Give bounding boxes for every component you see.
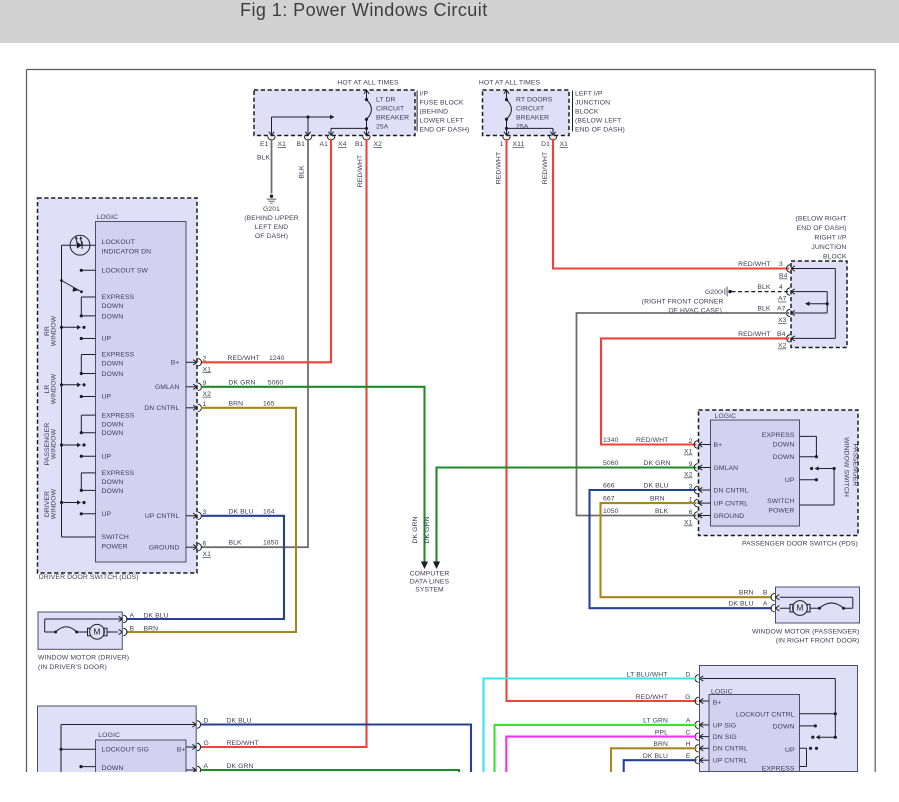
svg-text:1340: 1340 <box>603 437 619 444</box>
svg-text:UP CNTRL: UP CNTRL <box>145 513 180 520</box>
pin 4/A7 <box>757 284 790 303</box>
svg-text:RED/WHT: RED/WHT <box>228 355 260 362</box>
svg-text:GROUND: GROUND <box>714 513 745 520</box>
svg-text:BRN: BRN <box>653 741 668 748</box>
lower-right pin D <box>627 671 704 682</box>
svg-text:END OF DASH): END OF DASH) <box>575 126 625 133</box>
wire BRN lower-right H <box>611 748 697 772</box>
svg-text:(BEHIND: (BEHIND <box>420 108 449 115</box>
svg-text:DOWN: DOWN <box>773 454 795 461</box>
label PASSENGER WINDOW SWITCH <box>842 437 858 497</box>
right I/P junction block box <box>791 215 847 347</box>
svg-text:2: 2 <box>689 438 693 445</box>
svg-text:BLK: BLK <box>757 306 771 313</box>
label LR WINDOW <box>44 373 58 404</box>
svg-text:BREAKER: BREAKER <box>516 115 549 122</box>
svg-text:E1: E1 <box>260 141 269 148</box>
svg-text:EXPRESS: EXPRESS <box>762 766 795 773</box>
svg-text:LOCKOUT: LOCKOUT <box>102 239 136 246</box>
svg-text:X1: X1 <box>560 141 569 148</box>
svg-text:3: 3 <box>779 261 783 268</box>
label LOCKOUT SIG / B+ <box>102 746 186 778</box>
svg-text:BLK: BLK <box>757 284 771 291</box>
svg-text:LOGIC: LOGIC <box>711 688 733 695</box>
svg-text:FUSE BLOCK: FUSE BLOCK <box>420 100 464 107</box>
svg-text:A: A <box>763 601 768 608</box>
svg-text:DN CNTRL: DN CNTRL <box>713 746 748 753</box>
svg-text:LEFT END: LEFT END <box>255 224 289 231</box>
svg-text:UP: UP <box>102 453 112 460</box>
wire PPL lower-right C <box>506 737 696 773</box>
svg-text:X1: X1 <box>203 366 212 373</box>
motor driver pin A <box>123 613 168 623</box>
svg-text:B: B <box>763 590 768 597</box>
wire labels 1050 BLK <box>603 508 669 515</box>
lower-right pin C <box>655 729 709 740</box>
svg-text:DRIVER DOOR SWITCH (DDS): DRIVER DOOR SWITCH (DDS) <box>39 574 139 581</box>
lower-right wiper contact <box>811 735 837 740</box>
svg-text:G: G <box>685 694 690 701</box>
svg-text:DATA LINES: DATA LINES <box>410 579 450 586</box>
svg-text:SWITCH: SWITCH <box>102 534 129 541</box>
svg-text:E: E <box>686 753 691 760</box>
svg-text:COMPUTER: COMPUTER <box>410 571 450 578</box>
motor passenger pin B <box>739 590 775 601</box>
svg-text:RED/WHT: RED/WHT <box>636 437 668 444</box>
svg-text:X1: X1 <box>684 520 693 527</box>
svg-text:GROUND: GROUND <box>149 544 180 551</box>
fuse block internal wire E1-B1 with arrow <box>269 115 335 136</box>
svg-text:(IN DRIVER'S DOOR): (IN DRIVER'S DOOR) <box>38 664 107 671</box>
svg-text:H: H <box>685 741 690 748</box>
lower-left door switch box <box>38 706 197 790</box>
label RR WINDOW <box>44 315 58 346</box>
svg-text:BRN: BRN <box>144 626 159 633</box>
svg-text:LT DR: LT DR <box>376 97 396 104</box>
svg-text:B4: B4 <box>777 331 786 338</box>
svg-text:I/P: I/P <box>420 91 429 98</box>
svg-text:DN CNTRL: DN CNTRL <box>714 487 749 494</box>
svg-text:RED/WHT: RED/WHT <box>738 331 770 338</box>
svg-text:B+: B+ <box>177 746 186 753</box>
lockout switch lever <box>60 279 83 293</box>
svg-text:UP: UP <box>102 394 112 401</box>
wire BRN 165 DDS DN CNTRL to driver motor B <box>126 400 296 632</box>
svg-text:X2: X2 <box>778 343 787 350</box>
lower-left internal bus <box>59 725 95 773</box>
svg-text:LOCKOUT CNTRL: LOCKOUT CNTRL <box>736 712 795 719</box>
svg-text:UP: UP <box>785 747 795 754</box>
motor driver pin B <box>123 626 158 636</box>
lower-right door switch box <box>700 666 858 772</box>
svg-text:RED/WHT: RED/WHT <box>357 155 364 187</box>
svg-text:X1: X1 <box>203 551 212 558</box>
wire BRN 667 PDS UP CNTRL to passenger motor B <box>601 496 772 598</box>
svg-text:G201: G201 <box>263 206 280 213</box>
svg-text:CIRCUIT: CIRCUIT <box>516 106 544 113</box>
wire LT GRN lower-right A <box>495 725 697 773</box>
svg-text:UP SIG: UP SIG <box>713 722 737 729</box>
svg-text:DK BLU: DK BLU <box>644 483 669 490</box>
passenger window switch contacts <box>60 412 135 460</box>
wire BLK junction A7/X3 to PDS GROUND <box>577 313 790 516</box>
svg-text:RED/WHT: RED/WHT <box>542 152 549 184</box>
svg-text:WINDOW: WINDOW <box>51 373 58 404</box>
svg-text:165: 165 <box>263 400 275 407</box>
ground G200 dashed lead <box>642 287 788 315</box>
lower-right logic box <box>709 688 800 771</box>
wire LT BLU/WHT lower-right D <box>484 679 697 773</box>
svg-text:B+: B+ <box>714 442 723 449</box>
wire label BLK 1850 <box>229 540 279 547</box>
svg-text:DOWN: DOWN <box>102 421 124 428</box>
DDS left bus wire <box>62 245 96 537</box>
lower-right pin H <box>653 741 709 752</box>
svg-text:X4: X4 <box>338 141 347 148</box>
lower-right D internal wire to lockout <box>702 679 837 738</box>
junction internal bus 3 to B4 <box>791 266 835 341</box>
lockout indicator LED <box>62 235 152 255</box>
lower-left pin D <box>188 718 252 729</box>
label HOT AT ALL TIMES (right) <box>479 80 541 87</box>
svg-text:DK BLU: DK BLU <box>643 753 668 760</box>
wire RED/WHT junction pin1 down to lower-right switch G <box>496 139 697 701</box>
DDS pin 3 UP CNTRL <box>145 509 207 520</box>
LR window switch contacts <box>60 352 135 401</box>
DDS logic box <box>96 214 187 562</box>
svg-text:RED/WHT: RED/WHT <box>227 740 259 747</box>
svg-text:1050: 1050 <box>603 508 619 515</box>
svg-text:LOGIC: LOGIC <box>97 214 119 221</box>
label DRIVER WINDOW <box>44 488 58 519</box>
driver window switch contacts <box>60 470 135 518</box>
svg-text:DK GRN: DK GRN <box>424 516 431 543</box>
lower-left pin G <box>186 740 259 751</box>
svg-text:HOT AT ALL TIMES: HOT AT ALL TIMES <box>337 80 399 87</box>
lockout switch contact <box>80 268 149 275</box>
circuit breaker RT DOORS 25A <box>504 90 553 136</box>
svg-text:DOWN: DOWN <box>102 479 124 486</box>
window motor passenger box <box>752 587 860 645</box>
wire BLK 1850 fuse B1 to DDS GROUND <box>201 139 308 547</box>
wire DK BLU lower-left D down <box>201 725 471 773</box>
lower-left logic box <box>96 732 187 790</box>
wire RED/WHT 1240 fuse A1 to DDS B+ <box>201 139 331 362</box>
wire RED/WHT 1340 junction B4/X2 to PDS B+ <box>601 338 789 444</box>
svg-text:DOWN: DOWN <box>102 361 124 368</box>
svg-text:RIGHT I/P: RIGHT I/P <box>814 234 846 241</box>
svg-text:GMLAN: GMLAN <box>155 384 180 391</box>
svg-text:X11: X11 <box>513 141 525 148</box>
svg-text:BLOCK: BLOCK <box>575 108 599 115</box>
svg-text:HOT AT ALL TIMES: HOT AT ALL TIMES <box>479 80 541 87</box>
svg-text:BREAKER: BREAKER <box>376 115 409 122</box>
svg-text:B4: B4 <box>779 273 788 280</box>
lower-right internal labels <box>713 699 795 772</box>
ground G201 <box>244 195 299 241</box>
svg-text:DOWN: DOWN <box>102 488 124 495</box>
svg-text:DOWN: DOWN <box>773 441 795 448</box>
PDS window switch contacts <box>762 432 836 514</box>
svg-text:(BELOW RIGHT: (BELOW RIGHT <box>795 215 846 222</box>
svg-text:DOWN: DOWN <box>102 765 124 772</box>
svg-text:LOWER LEFT: LOWER LEFT <box>420 117 464 124</box>
svg-text:X2: X2 <box>203 391 212 398</box>
DDS pin 1 DN CNTRL <box>144 401 206 412</box>
svg-text:X2: X2 <box>374 141 383 148</box>
svg-text:DK GRN: DK GRN <box>412 516 419 543</box>
lower-left DOWN contact <box>79 765 123 772</box>
svg-text:PASSENGER DOOR SWITCH (PDS): PASSENGER DOOR SWITCH (PDS) <box>742 540 858 547</box>
svg-text:9: 9 <box>689 461 693 468</box>
svg-text:6: 6 <box>203 541 207 548</box>
svg-text:25A: 25A <box>376 124 389 131</box>
svg-text:LT GRN: LT GRN <box>643 718 668 725</box>
label SWITCH POWER <box>102 534 129 551</box>
svg-text:BLK: BLK <box>299 165 306 179</box>
left I/P junction block box <box>483 90 625 136</box>
svg-text:DK GRN: DK GRN <box>644 460 671 467</box>
svg-text:UP: UP <box>102 511 112 518</box>
fuse block internal wire A1 branch <box>328 127 368 136</box>
PDS pin 2/X1 B+ <box>684 438 722 456</box>
PDS pin 9/X2 GMLAN <box>684 461 738 479</box>
motor passenger pin A <box>728 601 774 612</box>
svg-text:WINDOW MOTOR (PASSENGER): WINDOW MOTOR (PASSENGER) <box>752 629 860 636</box>
svg-text:DOWN: DOWN <box>102 430 124 437</box>
label COMPUTER DATA LINES SYSTEM <box>410 571 450 594</box>
wire RED/WHT fuse B1/X2 down to lower-left switch G <box>201 139 367 747</box>
svg-text:1850: 1850 <box>263 540 279 547</box>
RR window switch contacts <box>60 294 135 343</box>
svg-text:LOCKOUT SIG: LOCKOUT SIG <box>102 746 149 753</box>
svg-text:EXPRESS: EXPRESS <box>102 294 135 301</box>
pin B1 <box>296 136 311 148</box>
wire BLK E1 to G201 <box>257 139 272 194</box>
svg-text:M: M <box>93 627 100 637</box>
pin E1/X1 <box>260 136 286 148</box>
svg-text:G: G <box>204 740 209 747</box>
title bar <box>0 0 899 43</box>
svg-text:BLK: BLK <box>655 508 669 515</box>
motor M passenger <box>776 595 853 616</box>
pin 1/X11 <box>500 136 525 148</box>
junction internal 4 to A7 with arrow <box>791 289 829 316</box>
PDS logic box <box>711 413 800 526</box>
svg-text:4: 4 <box>779 284 783 291</box>
svg-text:RT DOORS: RT DOORS <box>516 97 553 104</box>
svg-text:M: M <box>796 603 803 613</box>
DDS pin 9/X2 GMLAN <box>155 380 211 398</box>
window motor driver box <box>38 612 129 671</box>
lower-right pin A <box>643 718 709 729</box>
svg-text:EXPRESS: EXPRESS <box>102 412 135 419</box>
svg-text:WINDOW SWITCH: WINDOW SWITCH <box>842 437 849 497</box>
svg-text:A: A <box>686 718 691 725</box>
svg-text:EXPRESS: EXPRESS <box>102 470 135 477</box>
DDS pin 6/X1 GROUND <box>149 541 211 559</box>
svg-text:G200: G200 <box>705 289 722 296</box>
label PASSENGER WINDOW <box>44 423 58 466</box>
pin B1/X2 <box>355 136 382 148</box>
lower-left pin A <box>186 763 254 774</box>
svg-text:POWER: POWER <box>768 508 794 515</box>
lower-right pin E <box>643 753 709 764</box>
svg-text:JUNCTION: JUNCTION <box>575 100 610 107</box>
svg-text:DOWN: DOWN <box>773 723 795 730</box>
svg-text:BLK: BLK <box>229 540 243 547</box>
svg-text:B1: B1 <box>296 141 305 148</box>
svg-text:2: 2 <box>203 356 207 363</box>
wire labels 1340 RED/WHT <box>603 437 668 444</box>
pin B4/X2 <box>738 331 790 350</box>
svg-text:WINDOW: WINDOW <box>51 315 58 346</box>
svg-text:POWER: POWER <box>102 544 128 551</box>
svg-text:A1: A1 <box>319 141 328 148</box>
svg-text:PPL: PPL <box>655 729 668 736</box>
svg-text:666: 666 <box>603 483 615 490</box>
svg-text:BRN: BRN <box>739 590 754 597</box>
svg-text:1240: 1240 <box>269 355 285 362</box>
wire DK GRN 5060 PDS GMLAN to data lines <box>437 468 697 562</box>
wire DK BLU 666 PDS DN CNTRL to passenger motor A <box>590 483 772 609</box>
svg-text:JUNCTION: JUNCTION <box>811 244 846 251</box>
wire DK GRN 5060 DDS GMLAN to data lines <box>201 379 425 561</box>
svg-text:WINDOW MOTOR (DRIVER): WINDOW MOTOR (DRIVER) <box>38 655 129 662</box>
svg-text:RED/WHT: RED/WHT <box>636 694 668 701</box>
svg-text:5060: 5060 <box>268 379 284 386</box>
wire DK BLU 164 DDS UP CNTRL to driver motor A <box>126 508 284 619</box>
svg-text:OF DASH): OF DASH) <box>255 233 288 240</box>
motor M driver <box>45 616 123 639</box>
svg-text:UP: UP <box>785 477 795 484</box>
lower-left D internal wire <box>61 724 188 726</box>
passenger door switch PDS outer box <box>699 410 859 547</box>
svg-text:BRN: BRN <box>229 400 244 407</box>
lower-right UP contact and express bracket <box>800 747 819 767</box>
svg-text:A: A <box>130 613 135 620</box>
svg-text:C: C <box>685 729 690 736</box>
pin D1/X1 <box>541 136 568 148</box>
wire label RED/WHT 1240 <box>228 355 285 362</box>
pin A1/X4 <box>319 136 346 148</box>
svg-text:UP CNTRL: UP CNTRL <box>713 757 748 764</box>
lower-right DOWN contact <box>800 724 817 727</box>
svg-text:X3: X3 <box>778 317 787 324</box>
wire RED/WHT D1 to right junction block pin 3 <box>542 139 789 269</box>
svg-text:DN SIG: DN SIG <box>713 734 737 741</box>
fuse block internal wire D1 branch <box>505 127 556 136</box>
data lines arrows DK GRN <box>412 516 440 569</box>
svg-text:END OF DASH): END OF DASH) <box>797 225 847 232</box>
svg-text:LT BLU/WHT: LT BLU/WHT <box>627 671 668 678</box>
svg-text:DOWN: DOWN <box>102 371 124 378</box>
svg-text:A7: A7 <box>778 296 787 303</box>
svg-text:(BELOW LEFT: (BELOW LEFT <box>575 117 621 124</box>
svg-text:DK BLU: DK BLU <box>728 601 753 608</box>
svg-text:1: 1 <box>500 141 504 148</box>
pin A7/X3 <box>757 306 790 325</box>
svg-text:A7: A7 <box>777 306 786 313</box>
svg-text:B+: B+ <box>171 360 180 367</box>
svg-text:WINDOW: WINDOW <box>51 428 58 459</box>
PDS pin 6/X1 GROUND <box>684 509 744 527</box>
svg-text:DK BLU: DK BLU <box>229 508 254 515</box>
svg-text:SYSTEM: SYSTEM <box>415 587 444 594</box>
svg-text:UP CNTRL: UP CNTRL <box>714 500 749 507</box>
svg-text:X1: X1 <box>684 449 693 456</box>
svg-text:25A: 25A <box>516 124 529 131</box>
svg-text:DK GRN: DK GRN <box>229 379 256 386</box>
svg-text:WINDOW: WINDOW <box>51 488 58 519</box>
svg-text:GMLAN: GMLAN <box>714 465 739 472</box>
svg-text:164: 164 <box>263 508 275 515</box>
svg-text:DOWN: DOWN <box>102 303 124 310</box>
svg-text:UP: UP <box>102 336 112 343</box>
svg-text:DK BLU: DK BLU <box>144 613 169 620</box>
svg-text:5060: 5060 <box>603 460 619 467</box>
label HOT AT ALL TIMES (left) <box>337 80 399 87</box>
svg-text:PASSENGER: PASSENGER <box>851 444 858 487</box>
svg-text:B: B <box>130 626 135 633</box>
svg-text:(IN RIGHT FRONT DOOR): (IN RIGHT FRONT DOOR) <box>776 638 860 645</box>
svg-text:D1: D1 <box>541 141 550 148</box>
svg-text:D: D <box>685 671 690 678</box>
PDS pin 1 UP CNTRL <box>689 497 749 508</box>
svg-text:EXPRESS: EXPRESS <box>102 352 135 359</box>
svg-text:LOCKOUT SW: LOCKOUT SW <box>102 268 149 275</box>
pin 3/B4 <box>738 261 790 280</box>
svg-text:LOGIC: LOGIC <box>715 413 737 420</box>
svg-text:DN CNTRL: DN CNTRL <box>144 405 179 412</box>
svg-text:6: 6 <box>689 509 693 516</box>
I/P fuse block box <box>254 90 469 136</box>
wire labels 5060 DK GRN <box>603 460 671 467</box>
svg-text:Fig 1: Power Windows Circuit: Fig 1: Power Windows Circuit <box>240 0 488 20</box>
svg-text:LOGIC: LOGIC <box>98 732 120 739</box>
svg-text:END OF DASH): END OF DASH) <box>420 126 470 133</box>
svg-text:DOWN: DOWN <box>102 313 124 320</box>
svg-text:RED/WHT: RED/WHT <box>496 152 503 184</box>
PDS pin 3 DN CNTRL <box>689 483 749 494</box>
svg-text:B1: B1 <box>355 141 364 148</box>
svg-text:LEFT I/P: LEFT I/P <box>575 91 603 98</box>
svg-text:EXPRESS: EXPRESS <box>762 432 795 439</box>
wire DK GRN lower-left A down <box>201 770 459 773</box>
svg-text:X2: X2 <box>684 472 693 479</box>
svg-text:B+: B+ <box>713 699 722 706</box>
svg-text:667: 667 <box>603 496 615 503</box>
wire DK BLU lower-right E <box>624 760 697 772</box>
svg-text:SWITCH: SWITCH <box>767 498 794 505</box>
svg-text:BRN: BRN <box>650 496 665 503</box>
svg-text:(BEHIND UPPER: (BEHIND UPPER <box>244 215 299 222</box>
svg-text:INDICATOR DN: INDICATOR DN <box>102 249 152 256</box>
circuit breaker LT DR 25A <box>364 90 409 136</box>
driver door switch DDS outer box <box>38 198 198 581</box>
svg-text:BLOCK: BLOCK <box>823 253 847 260</box>
svg-text:CIRCUIT: CIRCUIT <box>376 106 404 113</box>
svg-text:X1: X1 <box>278 141 287 148</box>
svg-text:BLK: BLK <box>257 155 271 162</box>
lower-right pin G <box>636 694 709 705</box>
svg-text:(RIGHT FRONT CORNER: (RIGHT FRONT CORNER <box>642 298 724 305</box>
DDS pin 2/X1 B+ <box>171 356 211 374</box>
svg-text:RED/WHT: RED/WHT <box>738 261 770 268</box>
